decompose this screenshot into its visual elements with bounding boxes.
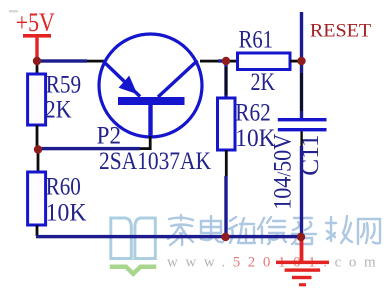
transistor Q P2 circle — [99, 34, 202, 137]
capacitor C11 top plate — [278, 118, 327, 121]
svg-text:C11: C11 — [295, 134, 324, 175]
power stem wire — [35, 38, 38, 59]
pin capacitor top black — [300, 73, 302, 111]
svg-text:2K: 2K — [45, 95, 72, 124]
svg-text:+5V: +5V — [16, 8, 55, 37]
node R62 rail junction — [221, 233, 229, 241]
transistor collector diagonal — [158, 61, 198, 98]
pin transistor emitter black — [87, 60, 104, 63]
svg-text:10K: 10K — [46, 197, 87, 226]
pin R60 top — [37, 153, 40, 172]
pin base black — [149, 136, 152, 150]
svg-text:www.520101.com: www.520101.com — [167, 255, 383, 271]
svg-text:104/50V: 104/50V — [268, 133, 297, 210]
power rail bar — [23, 34, 51, 38]
transistor emitter arrow — [119, 76, 138, 95]
pin R60 bottom — [36, 225, 39, 236]
resistor R62 — [218, 98, 236, 150]
pin capacitor bottom black — [300, 131, 302, 148]
transistor emitter diagonal — [103, 61, 140, 97]
resistor R60 — [28, 172, 46, 225]
wire emitter row navy — [38, 59, 87, 62]
pin R61 left — [230, 60, 238, 63]
node reset junction — [297, 57, 305, 65]
node ground junction — [297, 233, 305, 241]
node collector junction — [222, 57, 230, 65]
pin R62 top black — [225, 67, 227, 95]
svg-text:RESET: RESET — [310, 21, 372, 42]
watermark book green underline — [110, 267, 156, 274]
wire collector navy — [218, 59, 226, 62]
pin R61 right — [290, 60, 298, 63]
node power junction — [33, 57, 41, 65]
pin R59 top — [36, 62, 39, 74]
wire bottom rail — [36, 235, 301, 238]
capacitor C11 bottom plate — [278, 128, 327, 131]
faint artifact top-left — [9, 10, 18, 13]
node base junction — [34, 145, 42, 153]
watermark book logo — [111, 218, 156, 259]
transistor base bar — [118, 97, 185, 105]
svg-text:R61: R61 — [239, 25, 273, 54]
wire RESET stub up — [300, 12, 303, 61]
svg-text:2SA1037AK: 2SA1037AK — [99, 146, 211, 175]
pin R59 bottom — [36, 125, 39, 147]
resistor R61 — [238, 53, 291, 70]
ground bar 4 — [299, 283, 306, 286]
ground bar 1 — [276, 261, 329, 265]
ground bar 2 — [285, 268, 321, 271]
wire base horizontal black end — [140, 147, 152, 150]
ground stem — [300, 240, 304, 261]
wire base horizontal navy — [38, 147, 140, 150]
ground bar 3 — [292, 276, 312, 279]
resistor R59 — [28, 74, 46, 125]
svg-text:2K: 2K — [251, 67, 276, 96]
wire R62 to rail navy — [224, 176, 227, 237]
transistor base lead blue — [148, 105, 152, 137]
pin R62 bottom black — [225, 150, 228, 176]
pin collector black — [200, 60, 220, 63]
wire capacitor to rail navy — [300, 146, 303, 237]
wire R62 drop navy — [224, 61, 227, 98]
watermark chinese characters — [168, 215, 380, 245]
wire capacitor drop navy — [300, 61, 303, 119]
